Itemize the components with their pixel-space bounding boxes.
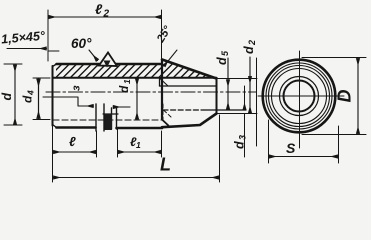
bore d1 top line [53, 77, 217, 79]
cone bottom edge [162, 120, 169, 126]
svg-text:2: 2 [247, 40, 257, 46]
svg-text:5: 5 [220, 50, 230, 56]
center line vertical [299, 51, 301, 148]
d3 stem [244, 86, 246, 109]
l2 ext left [47, 10, 49, 61]
svg-text:2: 2 [103, 9, 110, 20]
mystery vertical right of d2 [256, 58, 258, 146]
svg-text:d: d [117, 85, 131, 93]
ring r27.5 [272, 69, 327, 124]
ring r33 [266, 63, 332, 129]
groove bottom: dark notch [105, 114, 113, 131]
S ext right [338, 126, 340, 163]
svg-text:1,5×45°: 1,5×45° [1, 29, 47, 47]
outline: thread OD bottom [57, 126, 163, 129]
groove runout triangle (white) [99, 53, 117, 67]
svg-text:ℓ: ℓ [95, 1, 103, 17]
L ext right [219, 115, 221, 182]
d dimension line [14, 65, 16, 125]
dark V inside [104, 61, 111, 68]
svg-text:d: d [21, 95, 35, 103]
hatch cone wall triangle [162, 60, 217, 79]
chamfer circle [280, 77, 319, 116]
svg-text:3: 3 [238, 135, 248, 140]
l1 ext right (hex face down) [161, 131, 163, 157]
end face ext lines [217, 79, 258, 114]
bore d1 bottom hidden (dashed) [53, 119, 162, 121]
d4 dimension line [38, 79, 40, 119]
svg-text:з: з [71, 85, 83, 91]
60deg leader [89, 50, 98, 61]
L dimension line [53, 177, 219, 179]
center line horizontal [258, 95, 344, 97]
svg-text:D: D [335, 90, 355, 103]
ring r30.5 [269, 66, 330, 127]
svg-text:d: d [215, 57, 229, 65]
bore d3 bottom line + ext [163, 109, 204, 111]
d2 dimension line [249, 57, 251, 76]
bore d3 top line [160, 85, 217, 87]
left end face [52, 66, 54, 126]
svg-text:1: 1 [122, 79, 132, 84]
svg-text:S: S [286, 140, 296, 156]
d5 dimension line [227, 58, 229, 79]
1,5x45 leader [7, 48, 47, 50]
svg-text:60°: 60° [71, 36, 92, 51]
D ext top [302, 57, 366, 59]
d dim ext lines [4, 64, 22, 125]
hidden step below axis (dashed) [162, 104, 164, 120]
l ext right [96, 131, 98, 157]
d1 dimension line [136, 78, 138, 119]
svg-text:d: d [242, 46, 256, 54]
left face ext down [52, 126, 54, 182]
25deg leader [164, 50, 177, 66]
svg-text:d: d [233, 141, 247, 149]
l1 ext left [117, 129, 119, 157]
l dimension line [53, 151, 96, 153]
outline: thread OD top [57, 63, 163, 66]
hatch band thread wall top [56, 65, 162, 78]
S dimension line [269, 156, 338, 158]
l1 dimension line [118, 151, 161, 153]
outer circle [263, 60, 336, 133]
chamfer top-left [53, 64, 57, 67]
svg-text:ℓ: ℓ [69, 134, 76, 149]
axis dash-dot [46, 91, 256, 93]
d4 ext ticks [33, 78, 50, 120]
hidden countersink diag (dashed) [164, 110, 172, 117]
D dimension line [357, 58, 359, 133]
svg-text:1: 1 [136, 140, 141, 150]
hex right face / cone base [161, 60, 163, 120]
svg-text:4: 4 [26, 90, 36, 96]
svg-text:25°: 25° [154, 24, 174, 46]
D ext bottom [302, 134, 366, 136]
small tick at chamfer [49, 50, 60, 52]
svg-text:L: L [160, 155, 171, 175]
chamfer bottom-left [53, 125, 57, 128]
groove bottom: verticals [96, 104, 117, 131]
right end face [216, 79, 218, 114]
z groove leader [43, 97, 78, 106]
internal step vertical [159, 78, 161, 87]
cone top edge 25deg [162, 60, 217, 79]
bore circle [284, 81, 315, 112]
S ext left [268, 120, 270, 163]
l2 dimension line [49, 16, 161, 18]
l2 ext right [161, 10, 163, 60]
countersink diag solid [160, 78, 169, 86]
svg-text:d: d [0, 93, 14, 101]
